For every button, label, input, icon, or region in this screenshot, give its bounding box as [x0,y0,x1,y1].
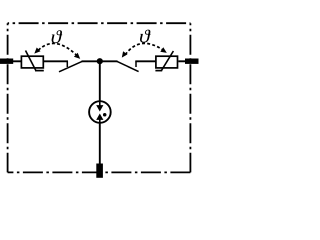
varistor RV2 foot stroke [155,70,162,72]
disconnector F2 switch blade [117,61,139,71]
wire: disconnector F1 to node A [82,60,101,62]
node A junction dot [97,58,103,64]
gas discharge tube up arrow shaft [99,119,101,124]
thermal monitoring arc left (dashed, double arrow) [38,43,76,55]
enclosure boundary left side (dash-dot) [7,23,9,172]
enclosure boundary top side (dash-dot) [8,22,191,24]
wire: varistor RV2 to right terminal [178,60,186,62]
wire: node A down to gas discharge tube [99,61,101,101]
wire: left terminal to varistor RV1 [12,60,21,62]
enclosure boundary right side (dash-dot) [189,23,191,172]
disconnector F2 fixed contact stub [135,61,137,67]
varistor RV1 body [21,56,43,68]
gas discharge tube down arrow shaft [99,101,101,107]
varistor RV2 diagonal stroke [161,51,173,71]
enclosure boundary bottom side (dash-dot) [8,171,191,173]
thermal arc right arrowhead at varistor RV2 [160,47,167,53]
gas discharge tube up arrowhead [96,114,103,120]
terminal bottom (earth) [96,164,103,178]
theta symbol left [52,30,63,43]
varistor RV1 diagonal stroke [26,51,36,71]
terminal left (line input) [0,59,13,64]
wire: disconnector F2 to varistor RV2 [135,60,155,62]
thermal monitoring arc right (dashed, double arrow) [125,43,163,54]
wire: gas discharge tube to earth terminal [99,123,101,165]
gas discharge tube F3 circle [89,101,111,123]
wire: node A to disconnector F2 [100,60,118,62]
theta symbol right [140,30,151,43]
disconnector F1 switch blade [59,61,82,72]
thermal arc left arrowhead at disconnector F1 [74,53,80,59]
thermal arc left arrowhead at varistor RV1 [34,48,40,54]
varistor RV1 foot stroke [35,70,44,72]
varistor RV2 body [156,56,178,68]
gas discharge tube down arrowhead [96,105,103,111]
disconnector F1 fixed contact stub [66,61,68,67]
terminal right (line input) [185,59,199,64]
thermal arc right arrowhead at disconnector F2 [122,51,128,57]
gas discharge tube gas-filled dot [103,113,107,117]
wire: varistor RV1 to disconnector F1 [44,60,68,62]
